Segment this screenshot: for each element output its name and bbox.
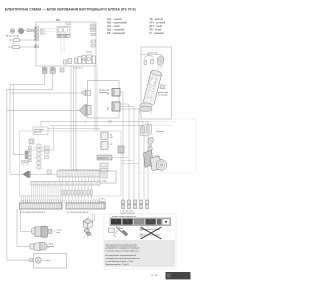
motor caption xyxy=(6,35,19,37)
jumper block xyxy=(100,163,108,172)
step wires board to bundle xyxy=(121,158,139,164)
temperature sensor head S1 xyxy=(144,54,154,64)
svg-text:1 2 3 4 5 6 7: 1 2 3 4 5 6 7 xyxy=(73,68,83,70)
note bar heading xyxy=(112,215,136,218)
transformer T1 xyxy=(57,27,70,38)
wire KB down-left xyxy=(7,73,53,260)
connector KC below board xyxy=(60,68,64,72)
connector strip CN5 xyxy=(25,139,34,162)
svg-text:опція: опція xyxy=(102,180,106,183)
svg-text:датчик темп.: датчик темп. xyxy=(148,52,159,54)
valve coil below cube xyxy=(84,229,93,239)
brand logo xyxy=(166,272,191,279)
svg-text:проводів між клемами внутрішнь: проводів між клемами внутрішнього xyxy=(106,257,141,260)
svg-text:Використовуйте, і 2 до 8: Використовуйте, і 2 до 8 xyxy=(106,263,130,266)
svg-text:вент.: вент. xyxy=(57,232,61,234)
option box xyxy=(100,171,116,183)
note heading xyxy=(105,242,124,244)
svg-text:КЕ1: КЕ1 xyxy=(108,107,110,110)
temperature sensor head S2 xyxy=(158,56,164,70)
IR receiver bracket xyxy=(141,121,164,136)
wire stubs below terminal bar xyxy=(119,226,148,229)
svg-text:Не допускайте перехрещування: Не допускайте перехрещування xyxy=(106,254,137,257)
svg-text:дотримуйтесь маркування провод: дотримуйтесь маркування проводів xyxy=(106,246,140,249)
fan motor M2 xyxy=(18,28,24,34)
svg-text:та схеми з'єднань блоків живле: та схеми з'єднань блоків живлення. xyxy=(106,249,140,252)
crossed wiring prohibition xyxy=(140,227,162,239)
end terminals right xyxy=(99,198,105,208)
svg-text:СВ - оранжевий: СВ - оранжевий xyxy=(107,32,126,35)
svg-text:ІЧ датчик: ІЧ датчик xyxy=(156,131,164,133)
connector plug KD1 xyxy=(108,89,121,97)
sensor detail box xyxy=(141,47,172,119)
wire KA down-left xyxy=(10,73,45,175)
wire branch to buzzer BZ1 xyxy=(10,92,81,94)
capacitor C2 xyxy=(9,43,35,48)
svg-text:та зовнішнього блоків, і 2 мм.: та зовнішнього блоків, і 2 мм. xyxy=(106,260,134,263)
sensor clip part xyxy=(158,85,169,97)
svg-text:ТБ1: ТБ1 xyxy=(56,19,61,22)
pin number row under board xyxy=(73,68,83,70)
relay row K1..K4 along board bottom xyxy=(64,52,96,65)
title xyxy=(5,7,136,11)
wires header J2 to rail J1 xyxy=(60,177,98,182)
wire branch to speaker BZ2 xyxy=(7,109,80,111)
svg-text:01 02 03 04 05 06 07 08 09 10: 01 02 03 04 05 06 07 08 09 10 11 xyxy=(20,212,45,214)
terminal strip X2 xyxy=(66,203,105,214)
buzzer BZ3 xyxy=(10,171,57,178)
connector plug KE1 xyxy=(108,102,121,111)
connector strip CN1 on board left edge xyxy=(35,27,39,48)
svg-text:1 2 3 4 5 6 7 8 9 0: 1 2 3 4 5 6 7 8 9 0 xyxy=(121,210,134,212)
board top edge connector xyxy=(66,22,70,25)
svg-text:ЕЛЕКТРИЧНА СХЕМА — БЛОК КЕРУВА: ЕЛЕКТРИЧНА СХЕМА — БЛОК КЕРУВАННЯ ВНУТРІ… xyxy=(5,7,136,11)
header rail J1 xyxy=(31,182,100,186)
svg-text:С2: С2 xyxy=(13,43,15,45)
board internal wires xyxy=(39,28,64,53)
wire colour legend column 1 xyxy=(107,18,127,35)
connector cell row right xyxy=(61,185,92,199)
wire M2 to CN1 xyxy=(24,29,35,32)
svg-text:При підключенні кабелів до кле: При підключенні кабелів до клем xyxy=(106,243,138,246)
svg-text:клемна колодка підключення: клемна колодка підключення xyxy=(112,215,136,218)
svg-text:КД1: КД1 xyxy=(108,92,110,95)
svg-text:2мм: 2мм xyxy=(119,228,123,230)
wire cube to strip xyxy=(92,214,94,222)
fan motor M1 xyxy=(10,29,15,34)
terminal bar illustration xyxy=(110,218,171,226)
capacitor bank xyxy=(37,144,41,169)
svg-text:U2: U2 xyxy=(110,144,112,146)
wires KE1 to bundle xyxy=(120,104,139,200)
wire to swing motor xyxy=(17,209,30,247)
connector KA below board xyxy=(42,66,47,74)
small parts next to CN1 xyxy=(41,29,47,35)
svg-text:індикація: індикація xyxy=(99,91,107,94)
long node wire with junction xyxy=(41,120,176,200)
screwdriver illustration xyxy=(109,227,129,237)
svg-text:К1 К2: К1 К2 xyxy=(87,52,93,54)
wire-end connector pairs xyxy=(122,200,149,209)
receiver strap part xyxy=(148,137,154,153)
IR receiver label strip xyxy=(97,155,122,160)
wire colour legend column 2 xyxy=(150,18,166,35)
svg-text:теплообмін.: теплообмін. xyxy=(158,94,168,97)
wire to fan motor xyxy=(21,209,32,232)
buzzer BZ1 xyxy=(81,90,91,96)
IC U1 xyxy=(100,132,113,140)
IC U2 xyxy=(100,142,112,150)
receiver assembly xyxy=(144,150,167,170)
wire to pump box xyxy=(27,259,30,261)
wire bundle from board bottom to control board xyxy=(71,66,76,172)
control board label box xyxy=(33,127,100,135)
svg-text:N L 01 02 03 04 05 06 07 08: N L 01 02 03 04 05 06 07 08 xyxy=(67,212,88,214)
loop row into strip X2 xyxy=(62,200,100,203)
note text panel xyxy=(104,240,175,267)
connector KB below board xyxy=(50,66,55,74)
IR receiver detail dashed box xyxy=(139,119,196,173)
buzzer BZ2 xyxy=(79,104,91,124)
wire branch to control board CN xyxy=(13,85,28,155)
IC block column on board right xyxy=(91,24,96,47)
small parts cluster xyxy=(34,146,51,174)
swing motor (drawing) xyxy=(30,243,55,252)
note panel frame xyxy=(104,214,176,269)
svg-text:17 - 40: 17 - 40 xyxy=(151,275,159,277)
terminal strip X1 xyxy=(20,203,63,214)
page number xyxy=(151,275,159,277)
second long wire xyxy=(50,126,172,201)
capacitor C1 xyxy=(10,38,35,41)
svg-text:РІ - рожевий: РІ - рожевий xyxy=(150,32,165,35)
header strip J2 with loop row xyxy=(57,169,100,177)
stepper valve cube xyxy=(83,217,92,229)
svg-text:приймач ІЧ: приймач ІЧ xyxy=(98,157,108,160)
svg-text:ж/к дисплей: ж/к дисплей xyxy=(99,88,109,91)
svg-text:4: 4 xyxy=(85,122,86,124)
loop row into strip X1 xyxy=(21,200,63,203)
power board PCB outline xyxy=(36,19,96,66)
pin labels under pairs xyxy=(121,210,136,214)
svg-text:жалюзі: жалюзі xyxy=(49,245,55,248)
display unit box xyxy=(88,81,120,119)
svg-text:М1, М2 - мотори: М1, М2 - мотори xyxy=(6,35,19,37)
pipe sensor probe (diagonal) xyxy=(139,70,162,114)
fan motor (drawing) xyxy=(32,226,62,237)
control board outline xyxy=(20,126,122,196)
drain pump assembly xyxy=(30,254,67,268)
wire KD1 to bundle xyxy=(120,92,123,200)
svg-text:ARISTON: ARISTON xyxy=(172,275,183,278)
wire fall left of rail xyxy=(22,185,61,203)
connector CN6 on board right edge xyxy=(118,146,124,153)
svg-text:насос: насос xyxy=(46,260,51,262)
wire pair from board to display box xyxy=(95,66,97,131)
small parts above BZ3 xyxy=(22,161,29,167)
